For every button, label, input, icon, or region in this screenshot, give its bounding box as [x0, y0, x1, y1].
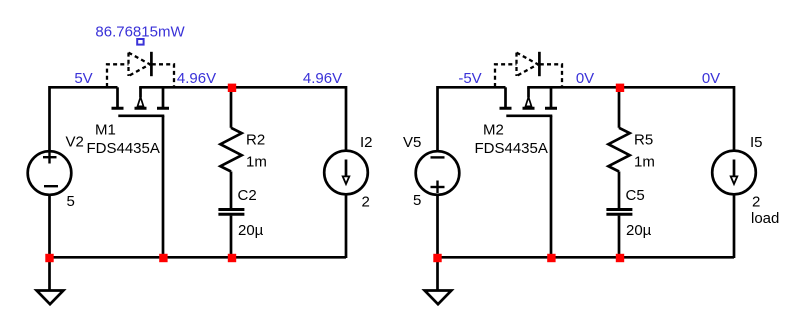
svg-text:1m: 1m	[634, 154, 655, 171]
svg-text:load: load	[751, 210, 779, 227]
svg-text:0V: 0V	[576, 70, 594, 87]
svg-text:4.96V: 4.96V	[177, 70, 216, 87]
svg-text:2: 2	[752, 194, 760, 211]
svg-text:86.76815mW: 86.76815mW	[95, 24, 185, 41]
svg-text:FDS4435A: FDS4435A	[87, 140, 160, 157]
svg-text:I2: I2	[360, 134, 373, 151]
svg-text:R5: R5	[634, 132, 653, 149]
svg-text:I5: I5	[750, 134, 763, 151]
svg-text:0V: 0V	[702, 70, 720, 87]
svg-text:4.96V: 4.96V	[303, 70, 342, 87]
svg-text:V5: V5	[403, 134, 421, 151]
svg-text:1m: 1m	[246, 154, 267, 171]
svg-text:2: 2	[362, 194, 370, 211]
svg-text:C5: C5	[626, 187, 645, 204]
svg-text:20µ: 20µ	[238, 222, 264, 239]
svg-text:M2: M2	[483, 122, 504, 139]
svg-text:-5V: -5V	[458, 70, 481, 87]
svg-text:5: 5	[413, 192, 421, 209]
svg-text:R2: R2	[246, 132, 265, 149]
svg-text:20µ: 20µ	[626, 222, 652, 239]
svg-text:C2: C2	[238, 187, 257, 204]
svg-text:5: 5	[67, 193, 75, 210]
svg-text:FDS4435A: FDS4435A	[475, 140, 548, 157]
svg-text:V2: V2	[66, 134, 84, 151]
svg-text:5V: 5V	[74, 70, 92, 87]
svg-text:M1: M1	[95, 122, 116, 139]
